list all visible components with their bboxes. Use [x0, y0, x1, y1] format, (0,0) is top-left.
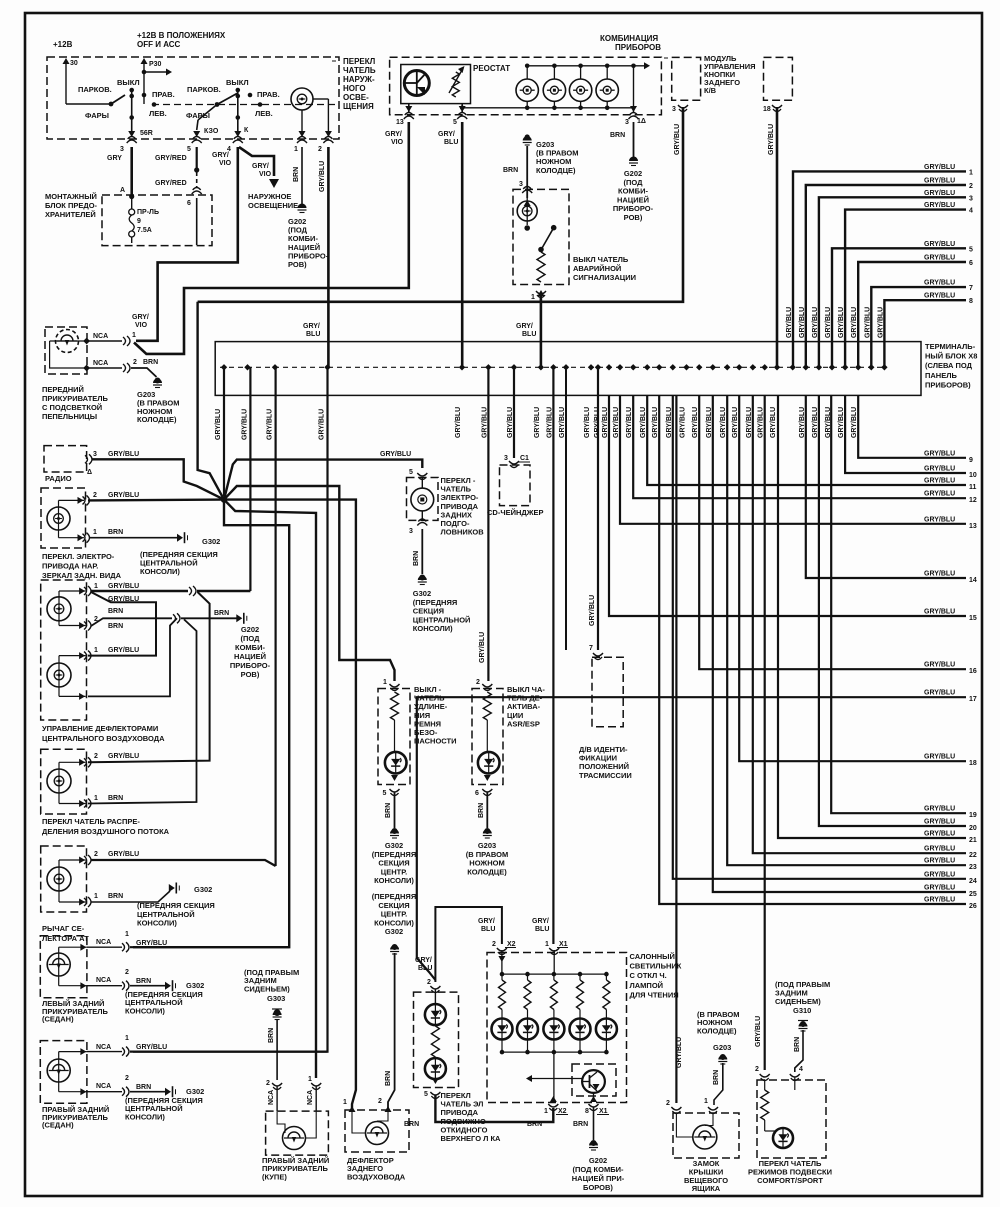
- svg-text:13: 13: [969, 523, 977, 530]
- svg-text:СЕКЦИЯ: СЕКЦИЯ: [378, 901, 409, 910]
- interior light arrow: [530, 1078, 554, 1080]
- svg-text:GRY/: GRY/: [212, 152, 229, 159]
- svg-text:КОНСОЛИ): КОНСОЛИ): [413, 624, 453, 633]
- svg-text:GRY/BLU: GRY/BLU: [720, 407, 727, 438]
- svg-text:КОЛОДЦЕ): КОЛОДЦЕ): [536, 166, 576, 175]
- svg-text:G303: G303: [267, 994, 285, 1003]
- svg-text:3: 3: [409, 528, 413, 535]
- wire BRN net to G202: [91, 618, 172, 626]
- svg-text:14: 14: [969, 577, 977, 584]
- svg-text:30: 30: [70, 60, 78, 67]
- svg-text:VIO: VIO: [219, 160, 232, 167]
- svg-text:НАРУЖНОЕ: НАРУЖНОЕ: [248, 192, 291, 201]
- svg-text:GRY/BLU: GRY/BLU: [215, 409, 222, 440]
- svg-text:1: 1: [544, 1108, 548, 1115]
- wire BRN front lighter to G203: [131, 368, 157, 377]
- wire GRY/BLU glovebox feed: [675, 395, 677, 1103]
- svg-text:GRY/BLU: GRY/BLU: [812, 407, 819, 438]
- node X8 terminal 5: [459, 364, 465, 370]
- svg-text:3: 3: [625, 119, 629, 126]
- svg-text:CD-ЧЕЙНДЖЕР: CD-ЧЕЙНДЖЕР: [487, 508, 544, 517]
- AT selector box: [41, 846, 87, 912]
- svg-text:Δ: Δ: [87, 469, 92, 476]
- svg-text:GRY/BLU: GRY/BLU: [924, 178, 955, 185]
- svg-text:1: 1: [308, 1076, 312, 1083]
- svg-text:BRN: BRN: [108, 623, 123, 630]
- wire BRN mirror switch to G302: [90, 537, 178, 539]
- svg-text:УПРАВЛЕНИЕ ДЕФЛЕКТОРАМИ: УПРАВЛЕНИЕ ДЕФЛЕКТОРАМИ: [42, 724, 158, 733]
- right rear lighter box sedan: [40, 1041, 87, 1104]
- svg-text:GRY/BLU: GRY/BLU: [534, 407, 541, 438]
- contact LEV 1: [152, 102, 157, 107]
- module box B pin 18: [772, 105, 782, 112]
- glove box pin 1: [708, 1107, 718, 1114]
- front cigarette lighter lamp: [50, 340, 87, 342]
- interior light box: [487, 953, 627, 1103]
- svg-text:GRY/: GRY/: [132, 314, 149, 321]
- wire terminal 30 arrow: [65, 60, 67, 104]
- svg-text:GRY/: GRY/: [478, 918, 495, 925]
- svg-text:9: 9: [969, 457, 973, 464]
- svg-text:РОВ): РОВ): [624, 213, 643, 222]
- svg-text:GRY/BLU: GRY/BLU: [851, 407, 858, 438]
- wire BRN branch lamp2: [88, 618, 177, 696]
- svg-text:GRY/BLU: GRY/BLU: [602, 407, 609, 438]
- svg-text:GRY/BLU: GRY/BLU: [589, 595, 596, 626]
- wire GRY/BLU rail 3: [819, 197, 966, 367]
- svg-text:GRY/BLU: GRY/BLU: [924, 478, 955, 485]
- radio box: [44, 446, 87, 472]
- svg-text:1: 1: [132, 332, 136, 339]
- interior light pin X2: [497, 948, 507, 955]
- air distribution pin 1: [84, 799, 91, 809]
- node X8 terminal 18: [670, 364, 676, 370]
- wire GRY/BLU rail 8: [884, 300, 966, 367]
- node X8 terminal 27: [790, 364, 796, 370]
- svg-text:ЧАТЕЛЬ: ЧАТЕЛЬ: [343, 66, 376, 75]
- svg-text:4: 4: [799, 1066, 803, 1073]
- svg-text:ЛОВНИКОВ: ЛОВНИКОВ: [441, 528, 485, 537]
- svg-text:GRY/BLU: GRY/BLU: [380, 451, 411, 458]
- svg-text:6: 6: [187, 200, 191, 207]
- svg-text:BRN: BRN: [214, 610, 229, 617]
- svg-text:GRY/BLU: GRY/BLU: [136, 1044, 167, 1051]
- svg-text:ХРАНИТЕЛЕЙ: ХРАНИТЕЛЕЙ: [45, 210, 96, 219]
- svg-text:GRY/RED: GRY/RED: [155, 155, 187, 162]
- suspension pin 2: [760, 1074, 770, 1081]
- svg-text:GRY/BLU: GRY/BLU: [924, 293, 955, 300]
- svg-text:+12В: +12В: [53, 40, 73, 49]
- node junction A: [129, 194, 134, 199]
- svg-text:G310: G310: [793, 1006, 811, 1015]
- svg-text:3: 3: [969, 195, 973, 202]
- svg-text:BLU: BLU: [522, 331, 536, 338]
- wire star spoke coupe lighter: [224, 500, 316, 1078]
- wire GRY/BLU rail 20: [819, 395, 966, 826]
- svg-text:GRY/BLU: GRY/BLU: [924, 662, 955, 669]
- svg-text:НАЦИЕЙ ПРИ-: НАЦИЕЙ ПРИ-: [572, 1174, 625, 1183]
- terminal block bus row: [220, 366, 884, 368]
- svg-text:NCA: NCA: [93, 333, 108, 340]
- ground G303: [274, 1009, 281, 1016]
- connector pins of S1: [127, 137, 137, 144]
- svg-text:(СЛЕВА ПОД: (СЛЕВА ПОД: [925, 361, 973, 370]
- svg-text:СЕКЦИЯ: СЕКЦИЯ: [378, 859, 409, 868]
- ground G202 bottom: [591, 1140, 597, 1146]
- svg-text:GRY/: GRY/: [438, 131, 455, 138]
- mirror switch pin 1: [83, 533, 90, 543]
- cluster bottom rail: [462, 107, 633, 109]
- svg-text:(ПОД: (ПОД: [624, 178, 644, 187]
- wire GRY/BLU rail 1: [793, 171, 966, 367]
- svg-text:16: 16: [969, 668, 977, 675]
- ASR ESP switch box S10: [472, 689, 503, 785]
- svg-text:G302: G302: [186, 1087, 204, 1096]
- node X8 terminal 21: [710, 364, 716, 370]
- wire GRY/BLU ASR feed: [487, 367, 489, 681]
- svg-text:G302: G302: [202, 537, 220, 546]
- svg-text:7: 7: [969, 285, 973, 292]
- front cigarette lighter E1 box: [45, 327, 87, 374]
- wire GRY/BLU CD feed: [513, 367, 515, 458]
- svg-text:GRY/: GRY/: [252, 163, 269, 170]
- suspension switch resistor: [761, 1090, 769, 1120]
- svg-text:G302: G302: [385, 841, 403, 850]
- left rear lighter box sedan: [40, 936, 87, 998]
- svg-text:(ПЕРЕДНЯЯ: (ПЕРЕДНЯЯ: [372, 892, 416, 901]
- wire GRY/BLU star riser: [223, 367, 225, 496]
- svg-text:P30: P30: [149, 61, 162, 68]
- svg-text:GRY/BLU: GRY/BLU: [319, 161, 326, 192]
- cluster pin 13: [408, 104, 410, 113]
- svg-text:С1: С1: [520, 455, 529, 462]
- svg-text:ПРИБОРОВ: ПРИБОРОВ: [615, 43, 661, 52]
- svg-text:GRY/BLU: GRY/BLU: [626, 407, 633, 438]
- wire star spoke mirror switch: [88, 498, 224, 501]
- svg-text:1: 1: [94, 647, 98, 654]
- svg-text:1: 1: [94, 795, 98, 802]
- svg-text:КОМБИНАЦИЯ: КОМБИНАЦИЯ: [600, 34, 658, 43]
- air distribution switch box S7: [41, 749, 87, 814]
- headrest pin 5: [417, 473, 427, 480]
- svg-text:НОГО: НОГО: [343, 84, 366, 93]
- svg-text:РАДИО: РАДИО: [45, 474, 72, 483]
- svg-text:GRY/BLU: GRY/BLU: [108, 753, 139, 760]
- svg-text:ДЛЯ ЧТЕНИЯ: ДЛЯ ЧТЕНИЯ: [630, 990, 679, 999]
- node X8 terminal 15: [630, 364, 636, 370]
- svg-text:18: 18: [763, 106, 771, 113]
- svg-text:4: 4: [969, 208, 973, 215]
- svg-text:ПАСНОСТИ: ПАСНОСТИ: [414, 737, 457, 746]
- interior light bus top: [498, 956, 505, 962]
- svg-text:BLU: BLU: [481, 926, 495, 933]
- svg-text:2: 2: [427, 979, 431, 986]
- svg-text:ЦЕНТР.: ЦЕНТР.: [381, 867, 407, 876]
- svg-text:1: 1: [531, 294, 535, 301]
- svg-text:2: 2: [125, 1075, 129, 1082]
- svg-text:BLU: BLU: [535, 926, 549, 933]
- svg-text:G202: G202: [624, 169, 642, 178]
- svg-text:GRY/BLU: GRY/BLU: [924, 255, 955, 262]
- suspension mode switch box S13: [757, 1080, 826, 1158]
- wire internal dashed row: [152, 104, 338, 106]
- svg-text:G302: G302: [413, 589, 431, 598]
- svg-text:G203: G203: [713, 1043, 731, 1052]
- svg-text:7.5А: 7.5А: [137, 227, 152, 234]
- svg-text:GRY/BLU: GRY/BLU: [838, 307, 845, 338]
- svg-text:GRY/BLU: GRY/BLU: [584, 407, 591, 438]
- svg-text:BRN: BRN: [404, 1121, 419, 1128]
- svg-text:1: 1: [125, 931, 129, 938]
- svg-text:ЦЕНТР.: ЦЕНТР.: [381, 910, 407, 919]
- svg-text:5: 5: [383, 790, 387, 797]
- svg-text:19: 19: [969, 812, 977, 819]
- wire GRY/BLU rail 2: [806, 185, 966, 367]
- svg-text:NCA: NCA: [96, 1083, 111, 1090]
- svg-text:20: 20: [969, 825, 977, 832]
- wire GRY/BLU rail 4: [845, 210, 966, 367]
- svg-text:(КУПЕ): (КУПЕ): [262, 1172, 287, 1181]
- svg-text:GRY/RED: GRY/RED: [155, 180, 187, 187]
- hazard switch resistor: [537, 252, 545, 282]
- ground G302 mirror: [177, 534, 183, 542]
- node X8 terminal 30: [829, 364, 835, 370]
- ground G203 right footwell: [523, 136, 532, 141]
- node X8 terminal 29: [816, 364, 822, 370]
- node X8 terminal 4: [324, 364, 330, 370]
- svg-text:СИДЕНЬЕМ): СИДЕНЬЕМ): [775, 997, 821, 1006]
- svg-text:1: 1: [383, 679, 387, 686]
- node star junction splice: [221, 496, 227, 502]
- node X8 terminal 23: [736, 364, 742, 370]
- sunroof pin 2: [430, 986, 440, 993]
- sunroof resistor: [431, 1026, 439, 1057]
- svg-text:BRN: BRN: [610, 132, 625, 139]
- svg-text:BRN: BRN: [108, 608, 123, 615]
- svg-text:GRY/: GRY/: [303, 323, 320, 330]
- svg-text:GRY/BLU: GRY/BLU: [799, 407, 806, 438]
- svg-text:GRY/BLU: GRY/BLU: [479, 632, 486, 663]
- svg-text:15: 15: [969, 615, 977, 622]
- ground G302 selector: [169, 884, 175, 892]
- fuse F9 7.5A: [131, 199, 133, 209]
- svg-text:BRN: BRN: [293, 167, 300, 182]
- svg-text:2: 2: [969, 183, 973, 190]
- svg-text:(СЕДАН): (СЕДАН): [42, 1121, 74, 1130]
- svg-text:VIO: VIO: [259, 171, 272, 178]
- svg-text:GRY/BLU: GRY/BLU: [755, 1016, 762, 1047]
- wire star spoke selector and lighters: [133, 500, 289, 948]
- node X8 terminal 1: [221, 364, 227, 370]
- AT selector pin 1: [84, 897, 91, 907]
- svg-text:3: 3: [504, 455, 508, 462]
- air distribution pin 2: [84, 757, 91, 767]
- hazard switch lamp: [526, 190, 528, 225]
- svg-text:BRN: BRN: [527, 1121, 542, 1128]
- ground G302 right lighter: [165, 1088, 171, 1096]
- rear vent duct lamp: [352, 1110, 366, 1133]
- ground G302 left lighter: [165, 982, 171, 990]
- interior light pin X1 bottom: [590, 1096, 597, 1102]
- wire BRN selector to G302: [91, 891, 170, 902]
- svg-text:X2: X2: [558, 1108, 567, 1115]
- svg-text:1: 1: [545, 941, 549, 948]
- ground G203 front lighter: [155, 378, 161, 384]
- svg-text:12: 12: [969, 497, 977, 504]
- svg-text:(ПОД: (ПОД: [241, 634, 261, 643]
- wire GRY/BLU vent2 riser: [88, 592, 210, 762]
- ASR pin 2: [482, 684, 492, 691]
- CD changer box: [500, 465, 531, 506]
- svg-text:GRY/BLU: GRY/BLU: [924, 466, 955, 473]
- svg-text:GRY/BLU: GRY/BLU: [692, 407, 699, 438]
- svg-text:2: 2: [125, 969, 129, 976]
- wire GRY/BLU rail 12: [633, 395, 966, 498]
- node X8 terminal 22: [724, 364, 730, 370]
- svg-text:ЛЕВ.: ЛЕВ.: [255, 109, 273, 118]
- svg-text:5: 5: [187, 146, 191, 153]
- svg-text:РОВ): РОВ): [288, 260, 307, 269]
- seat belt resistor: [391, 692, 399, 720]
- svg-text:26: 26: [969, 903, 977, 910]
- ground G202 under cluster: [629, 157, 638, 162]
- svg-text:С ПОДСВЕТКОЙ: С ПОДСВЕТКОЙ: [42, 403, 102, 412]
- svg-text:ЗЕРКАЛ ЗАДН. ВИДА: ЗЕРКАЛ ЗАДН. ВИДА: [42, 571, 122, 580]
- node X8 terminal 3: [272, 364, 278, 370]
- suspension switch LED: [773, 1128, 793, 1148]
- svg-text:1: 1: [94, 893, 98, 900]
- svg-text:NCA: NCA: [268, 1090, 275, 1105]
- seat belt pin 5: [391, 775, 398, 781]
- svg-text:GRY/BLU: GRY/BLU: [108, 647, 139, 654]
- node X8 terminal 8: [538, 364, 544, 370]
- svg-text:ТЕРМИНАЛЬ-: ТЕРМИНАЛЬ-: [925, 342, 976, 351]
- wire star spoke up-left: [198, 302, 224, 500]
- front lighter pin 2: [83, 365, 90, 372]
- svg-text:1: 1: [969, 169, 973, 176]
- wire GRY/BLU X1 feed: [552, 367, 554, 944]
- sunroof LED 1: [425, 1004, 446, 1025]
- svg-text:РЫЧАГ СЕ-: РЫЧАГ СЕ-: [42, 924, 85, 933]
- wire GRY/BLU selector: [91, 860, 276, 866]
- mirror switch pin 2: [83, 495, 90, 505]
- ground G202 mid: [236, 614, 242, 622]
- ASR resistor: [483, 692, 491, 720]
- rheostat resistor: [452, 72, 459, 97]
- wire lever to K30: [198, 105, 217, 121]
- svg-text:GRY/BLU: GRY/BLU: [924, 450, 955, 457]
- svg-text:10: 10: [969, 472, 977, 479]
- wire GRY/BLU rail 13: [620, 395, 966, 523]
- svg-text:BRN: BRN: [385, 803, 392, 818]
- svg-text:ПЕРЕКЛ: ПЕРЕКЛ: [343, 57, 376, 66]
- svg-text:БЛОК ПРЕДО-: БЛОК ПРЕДО-: [45, 201, 98, 210]
- wire GRY/BLU rail 23: [727, 395, 966, 865]
- cluster right drop: [633, 66, 635, 108]
- svg-text:2: 2: [492, 941, 496, 948]
- rear vent duct box: [345, 1110, 409, 1152]
- node X8 terminal 24: [750, 364, 756, 370]
- svg-text:ВЕРХНЕГО Л КА: ВЕРХНЕГО Л КА: [441, 1134, 502, 1143]
- svg-text:ПАРКОВ.: ПАРКОВ.: [78, 85, 112, 94]
- node X8 terminal 16: [644, 364, 650, 370]
- svg-text:GRY/BLU: GRY/BLU: [924, 516, 955, 523]
- switch contact PARKOV 1: [109, 102, 114, 107]
- svg-text:BRN: BRN: [573, 1121, 588, 1128]
- svg-text:5: 5: [969, 246, 973, 253]
- svg-text:G302: G302: [194, 885, 212, 894]
- node X8 terminal 12: [595, 364, 601, 370]
- wire GRY/BLU stub: [565, 367, 567, 650]
- svg-text:18: 18: [969, 760, 977, 767]
- node X8 terminal 6: [485, 364, 491, 370]
- svg-text:GRY/BLU: GRY/BLU: [924, 897, 955, 904]
- rear vent pin 1: [349, 1106, 356, 1112]
- svg-text:3: 3: [93, 451, 97, 458]
- svg-text:GRY/BLU: GRY/BLU: [924, 871, 955, 878]
- svg-text:GRY/BLU: GRY/BLU: [924, 241, 955, 248]
- svg-text:BRN: BRN: [108, 795, 123, 802]
- sunroof pin 5: [432, 1078, 439, 1084]
- left rear lighter lamp: [59, 946, 87, 948]
- wire GRY/BLU selector feed riser: [275, 367, 277, 866]
- svg-text:РОВ): РОВ): [241, 670, 260, 679]
- svg-text:2: 2: [94, 851, 98, 858]
- svg-text:GRY/BLU: GRY/BLU: [680, 407, 687, 438]
- svg-text:ПР-ЛЬ: ПР-ЛЬ: [137, 209, 159, 216]
- svg-text:МОНТАЖНЫЙ: МОНТАЖНЫЙ: [45, 192, 97, 201]
- svg-text:BRN: BRN: [136, 978, 151, 985]
- svg-text:ПРАВ.: ПРАВ.: [152, 90, 175, 99]
- svg-text:BRN: BRN: [268, 1028, 275, 1043]
- suspension pin 4: [790, 1074, 800, 1081]
- glove box pin 2: [671, 1107, 681, 1114]
- node X8 terminal 28: [803, 364, 809, 370]
- svg-text:GRY/BLU: GRY/BLU: [770, 407, 777, 438]
- rear vent pin 2: [385, 1106, 392, 1112]
- ground G302 headrest: [419, 575, 425, 581]
- svg-text:GRY/BLU: GRY/BLU: [136, 940, 167, 947]
- wire GRY/BLU rail 14: [806, 395, 966, 578]
- svg-text:GRY/BLU: GRY/BLU: [652, 407, 659, 438]
- svg-text:(ПЕРЕДНЯЯ: (ПЕРЕДНЯЯ: [372, 850, 416, 859]
- coupe lighter pin 2: [272, 1083, 282, 1090]
- svg-text:GRY/BLU: GRY/BLU: [924, 690, 955, 697]
- svg-text:ПРИВОДА НАР.: ПРИВОДА НАР.: [42, 562, 98, 571]
- wire star spoke rear vent duct: [224, 500, 356, 1110]
- hazard switch box S3: [513, 189, 569, 284]
- front lighter pin 1: [83, 338, 90, 345]
- svg-text:24: 24: [969, 878, 977, 885]
- mirror switch box S5: [41, 488, 86, 548]
- svg-text:НАЦИЕЙ: НАЦИЕЙ: [617, 195, 649, 204]
- svg-text:ВОЗДУХОВОДА: ВОЗДУХОВОДА: [347, 1172, 406, 1181]
- ground G203 ASR: [484, 828, 490, 834]
- interior light pin X2 bottom: [550, 1096, 557, 1102]
- svg-text:GRY/BLU: GRY/BLU: [267, 409, 274, 440]
- cluster lamp row: [516, 79, 538, 101]
- svg-text:VIO: VIO: [135, 322, 148, 329]
- svg-text:КОНСОЛИ): КОНСОЛИ): [137, 919, 177, 928]
- svg-text:КОЛОДЦЕ): КОЛОДЦЕ): [137, 415, 177, 424]
- svg-text:КОМБИ-: КОМБИ-: [618, 187, 648, 196]
- svg-text:BRN: BRN: [413, 551, 420, 566]
- svg-text:А: А: [120, 187, 125, 194]
- hazard switch contact: [524, 225, 530, 231]
- connector pin 6: [192, 188, 202, 195]
- svg-text:КОЛОДЦЕ): КОЛОДЦЕ): [467, 867, 507, 876]
- svg-text:ОСВЕ-: ОСВЕ-: [343, 93, 369, 102]
